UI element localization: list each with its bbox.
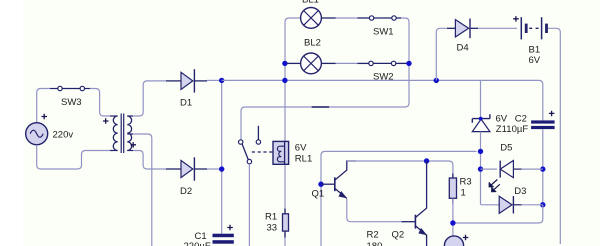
plus mark B2 bbox=[463, 235, 469, 241]
plus mark C1 bbox=[227, 225, 233, 231]
relay switch moving contact bbox=[247, 159, 251, 163]
node: BL2 branch bbox=[282, 61, 287, 66]
wire: R3 bottom to junction bbox=[452, 198, 454, 236]
svg-text:R1: R1 bbox=[265, 212, 277, 223]
relay RL1 coil box bbox=[273, 141, 289, 164]
svg-text:R2: R2 bbox=[367, 230, 379, 241]
svg-text:SW2: SW2 bbox=[373, 71, 394, 82]
node: D1 output junction bbox=[219, 78, 224, 83]
wire: rectifier output vertical (D1/D2 cathodes to C1) bbox=[221, 80, 223, 233]
wire: Q1 collector row to R3 bbox=[347, 161, 453, 178]
svg-text:D3: D3 bbox=[514, 186, 526, 197]
svg-text:Q1: Q1 bbox=[312, 189, 325, 200]
svg-text:SW1: SW1 bbox=[373, 26, 394, 37]
relay fixed contact bbox=[256, 140, 260, 144]
svg-text:SW3: SW3 bbox=[61, 97, 82, 108]
svg-text:RL1: RL1 bbox=[295, 154, 312, 165]
node: Q2 collector junction bbox=[424, 158, 429, 163]
wire: zener to Q-section and D5 rail bbox=[480, 132, 482, 205]
svg-text:10µF: 10µF bbox=[506, 124, 528, 135]
wire: fixed contact stub up bbox=[257, 126, 259, 140]
svg-text:D1: D1 bbox=[180, 98, 192, 109]
svg-text:D5: D5 bbox=[500, 143, 512, 154]
node: Q1 base junction bbox=[318, 182, 323, 187]
wire: SW3 to transformer primary top bbox=[85, 88, 91, 90]
svg-text:BL1: BL1 bbox=[302, 0, 319, 6]
wire: secondary bottom lead to D2 bbox=[127, 150, 133, 152]
svg-text:180: 180 bbox=[367, 241, 383, 246]
wire: D3 row from left rail bbox=[481, 203, 500, 205]
wire: Q1 emitter down and right to Q2 base bbox=[347, 198, 402, 221]
AC source V1 220v bbox=[26, 123, 48, 145]
dashed link to relay coil bbox=[252, 151, 273, 153]
svg-text:Q2: Q2 bbox=[392, 230, 405, 241]
svg-text:6V: 6V bbox=[295, 143, 307, 154]
wire: B1 right down the east rail bbox=[548, 28, 560, 244]
wire: moving contact down bbox=[248, 164, 250, 246]
node: D2 output junction bbox=[219, 166, 224, 171]
svg-text:6V: 6V bbox=[529, 55, 541, 66]
wire: secondary centre tap down bbox=[127, 133, 133, 135]
wire: SW1 right down to relay feed row bbox=[396, 17, 401, 19]
wire: dark segment on relay feed row bbox=[312, 106, 329, 108]
svg-text:BL2: BL2 bbox=[304, 38, 321, 49]
svg-text:220µF: 220µF bbox=[184, 241, 211, 246]
svg-text:B1: B1 bbox=[529, 45, 541, 56]
wire: D2 output to junction bbox=[207, 168, 222, 170]
battery B1 bbox=[521, 17, 546, 39]
svg-text:D4: D4 bbox=[457, 43, 469, 54]
node: R3 / meter junction bbox=[450, 220, 455, 225]
diode D1 bbox=[166, 69, 207, 92]
diode D2 bbox=[166, 157, 207, 180]
relay switch pivot contact bbox=[239, 140, 243, 144]
node: D5 left bbox=[478, 166, 483, 171]
svg-text:Z1: Z1 bbox=[496, 124, 507, 135]
svg-text:33: 33 bbox=[267, 223, 278, 234]
diode D5 (points left) bbox=[500, 161, 543, 178]
capacitor C2 bbox=[531, 120, 555, 129]
wire: AC source bottom to transformer primary bottom (jog) bbox=[37, 145, 110, 169]
node: Q1 top wire joins bbox=[478, 149, 483, 154]
battery B2 (cut off at bottom) bbox=[444, 236, 463, 246]
zener Z1 bbox=[472, 114, 490, 131]
svg-text:1: 1 bbox=[461, 188, 466, 199]
node: SW2 joins vertical bbox=[406, 61, 411, 66]
plus mark secondary bbox=[131, 142, 137, 148]
wire: D1 output to rail bbox=[207, 79, 222, 81]
plus mark primary bbox=[103, 118, 109, 124]
LED arrows for D3 bbox=[489, 180, 500, 192]
node: D5 right bbox=[540, 166, 545, 171]
wire: BL2 to SW2 bbox=[321, 62, 335, 64]
svg-text:220v: 220v bbox=[53, 130, 74, 141]
transformer core bbox=[121, 114, 124, 154]
resistor R3 bbox=[449, 174, 456, 204]
lamp BL2 bbox=[287, 53, 321, 74]
wire: AC source top to SW3 bbox=[37, 89, 50, 124]
wire: rail up to D4 row bbox=[436, 28, 447, 80]
resistor R1 bbox=[283, 209, 289, 238]
lamp BL1 bbox=[301, 8, 322, 29]
wire: D5 row bbox=[481, 168, 498, 170]
wire: Q1 box top wire bbox=[321, 151, 477, 246]
switch SW2 bbox=[369, 61, 396, 65]
switch SW3 bbox=[58, 86, 85, 90]
wire: D3/C2 rail down and left to R3 bottom junction bbox=[453, 205, 543, 223]
transistor Q2 bbox=[415, 161, 426, 246]
svg-text:D2: D2 bbox=[180, 186, 192, 197]
wire: C2 bottom down to D5/D3 rail bbox=[542, 129, 544, 205]
node: D3 right bbox=[540, 202, 545, 207]
wire: D4 to battery B1 bbox=[478, 27, 517, 29]
relay switch arm bbox=[242, 144, 248, 160]
wire: main top rail y=80.4 bbox=[222, 80, 543, 120]
transistor Q1 bbox=[321, 161, 356, 198]
transformer T1 secondary coil bbox=[127, 116, 131, 151]
svg-text:R3: R3 bbox=[460, 177, 472, 188]
plus mark AC bbox=[42, 114, 48, 120]
diode D3 (points right) bbox=[499, 196, 543, 213]
wire: BL1 to SW1 bbox=[321, 17, 335, 19]
wire: left vertical x=285 (BL1 corner down to relay and R1) bbox=[285, 18, 301, 141]
plus mark B1 bbox=[513, 16, 519, 22]
capacitor C1 bbox=[213, 234, 234, 244]
transformer T1 primary coil bbox=[113, 116, 117, 151]
wire: zener branch vertical from rail bbox=[480, 80, 482, 117]
plus mark C2 bbox=[549, 111, 555, 117]
switch SW1 bbox=[369, 16, 396, 20]
node: rail to relay branch bbox=[282, 78, 287, 83]
wire: secondary top lead up to D1 bbox=[127, 115, 133, 117]
diode D4 bbox=[447, 19, 478, 39]
node: rail to D4 branch bbox=[434, 78, 439, 83]
wire: SW2 right lead to vertical bbox=[396, 62, 409, 64]
